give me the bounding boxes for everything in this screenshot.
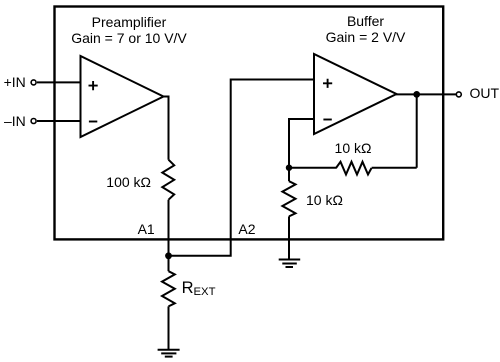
svg-text:+IN: +IN	[4, 74, 26, 90]
svg-text:Gain = 2 V/V: Gain = 2 V/V	[326, 29, 406, 45]
svg-text:Gain = 7 or 10 V/V: Gain = 7 or 10 V/V	[71, 30, 187, 46]
svg-text:100 kΩ: 100 kΩ	[106, 174, 151, 190]
svg-text:Buffer: Buffer	[347, 13, 384, 29]
svg-text:A2: A2	[238, 221, 255, 237]
svg-text:OUT: OUT	[470, 85, 500, 101]
svg-text:REXT: REXT	[182, 279, 216, 298]
svg-text:–IN: –IN	[4, 113, 26, 129]
svg-text:10 kΩ: 10 kΩ	[306, 192, 343, 208]
svg-text:A1: A1	[138, 221, 155, 237]
svg-text:10 kΩ: 10 kΩ	[335, 140, 372, 156]
svg-text:Preamplifier: Preamplifier	[92, 14, 167, 30]
